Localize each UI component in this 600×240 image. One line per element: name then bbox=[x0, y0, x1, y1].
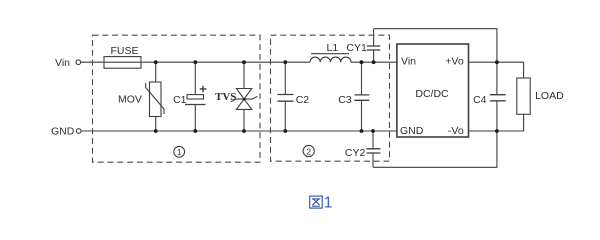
svg-text:TVS: TVS bbox=[215, 91, 236, 103]
svg-text:C1: C1 bbox=[173, 94, 187, 106]
svg-text:CY1: CY1 bbox=[346, 42, 367, 54]
svg-text:C4: C4 bbox=[473, 94, 487, 106]
svg-text:FUSE: FUSE bbox=[110, 45, 138, 57]
svg-text:Vin: Vin bbox=[55, 57, 70, 69]
svg-text:1: 1 bbox=[177, 148, 182, 157]
svg-text:GND: GND bbox=[400, 125, 424, 137]
svg-text:+Vo: +Vo bbox=[445, 55, 464, 67]
svg-text:1: 1 bbox=[324, 195, 333, 212]
svg-text:C2: C2 bbox=[296, 94, 310, 106]
svg-text:MOV: MOV bbox=[118, 93, 142, 105]
svg-text:CY2: CY2 bbox=[345, 147, 366, 159]
svg-text:C3: C3 bbox=[338, 94, 352, 106]
svg-text:LOAD: LOAD bbox=[535, 90, 564, 102]
svg-text:GND: GND bbox=[51, 126, 75, 138]
svg-text:L1: L1 bbox=[327, 42, 339, 54]
svg-text:2: 2 bbox=[306, 147, 311, 156]
svg-text:-Vo: -Vo bbox=[448, 125, 464, 137]
svg-text:Vin: Vin bbox=[401, 55, 416, 67]
svg-text:DC/DC: DC/DC bbox=[415, 88, 449, 100]
